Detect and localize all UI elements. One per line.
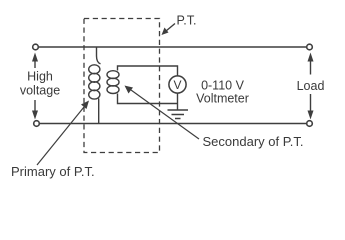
label: Load (with up/down arrows)	[308, 53, 314, 120]
wire: primary vertical lead (bottom)	[98, 99, 100, 124]
ground	[168, 110, 189, 119]
svg-text:P.T.: P.T.	[177, 14, 197, 28]
svg-text:V: V	[173, 78, 181, 92]
voltmeter V	[169, 76, 186, 93]
label: High voltage (with up/down arrows)	[32, 53, 38, 120]
terminal: top-right	[307, 44, 313, 50]
wire: secondary loop top (coil to voltmeter)	[118, 66, 178, 76]
pointer line: Primary of P.T. (arrowhead at primary coil)	[37, 107, 84, 165]
terminal: top-left	[33, 44, 39, 50]
transformer primary winding (Primary of P.T.)	[89, 65, 100, 99]
pointer line: Secondary of P.T. (arrowhead at secondary coil)	[131, 90, 199, 139]
terminal: bottom-right	[307, 121, 313, 127]
svg-text:Secondary of P.T.: Secondary of P.T.	[203, 134, 304, 149]
P.T. dashed enclosure box	[84, 19, 160, 153]
svg-text:Load: Load	[297, 79, 325, 93]
terminal: bottom-left	[34, 121, 40, 127]
wire: bottom high-voltage line	[40, 123, 306, 125]
svg-text:voltage: voltage	[20, 84, 60, 98]
wire: top high-voltage line	[39, 46, 306, 48]
wire: secondary loop bottom (coil to ground junction)	[118, 94, 178, 104]
svg-text:0-110 V: 0-110 V	[201, 79, 245, 93]
svg-text:Primary of P.T.: Primary of P.T.	[11, 164, 95, 179]
svg-text:High: High	[27, 70, 53, 84]
wire: primary vertical lead (top)	[97, 47, 101, 64]
svg-text:Voltmeter: Voltmeter	[196, 92, 249, 106]
wire: voltmeter bottom lead to ground	[177, 93, 179, 110]
transformer secondary winding (Secondary of P.T.)	[107, 71, 119, 94]
